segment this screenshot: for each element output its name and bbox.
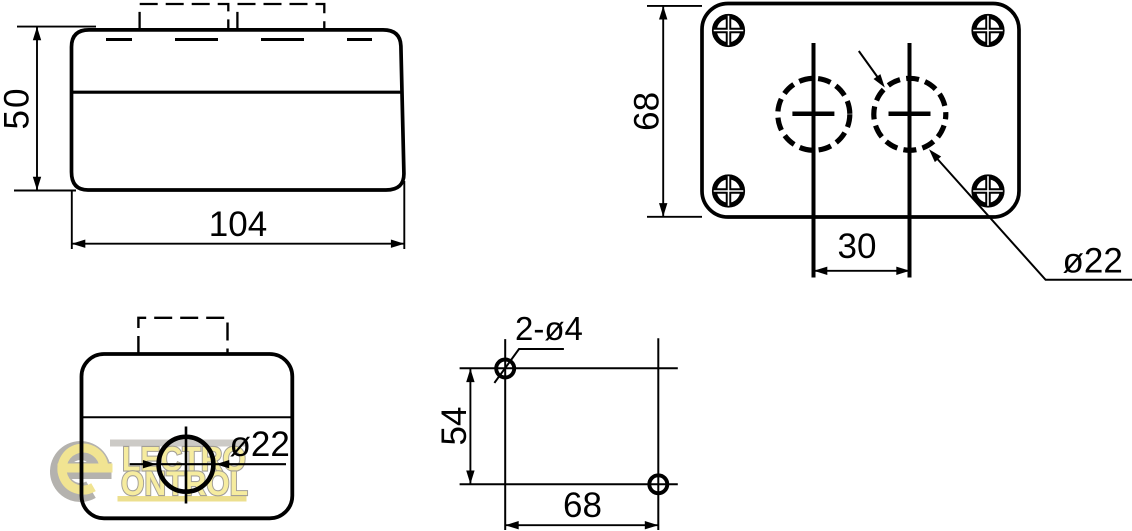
svg-text:104: 104: [209, 205, 267, 244]
watermark logo ELECTRO CONTROL: [54, 440, 249, 503]
enclosure front outline: [82, 354, 293, 518]
dim 68b dimension line: [506, 524, 658, 526]
svg-text:2-ø4: 2-ø4: [515, 310, 583, 347]
pointer arrow to right hole: [859, 51, 880, 81]
dim 30 arrow right: [896, 267, 910, 275]
svg-text:ø22: ø22: [1063, 242, 1123, 281]
dia22 front arrow left: [143, 460, 157, 468]
center line horizontal top: [460, 367, 678, 369]
dim 54 dimension line: [469, 369, 471, 484]
dim 54 arrow up: [466, 369, 474, 383]
dim 30 dimension line: [814, 270, 910, 272]
dim 50 extension line top: [17, 26, 96, 28]
svg-text:68: 68: [563, 486, 602, 525]
leader 2-dia4: [494, 349, 564, 383]
svg-text:ONTROL: ONTROL: [121, 465, 248, 503]
center line vertical hole A: [504, 339, 506, 530]
logo bottom yellow bar: [118, 496, 247, 502]
hole center line right vertical: [908, 43, 912, 278]
dim 50 arrow down: [33, 177, 41, 191]
dim 50 arrow up: [33, 27, 41, 41]
svg-text:30: 30: [838, 227, 877, 266]
button projection 1 (dashed): [140, 4, 229, 30]
hole center line left vertical: [812, 43, 816, 278]
svg-text:68: 68: [628, 92, 667, 131]
center line horizontal bottom: [460, 483, 678, 485]
dim 104 arrow right: [391, 240, 405, 248]
logo big E yellow: [58, 448, 113, 490]
dim 50 extension line bottom: [14, 190, 76, 192]
dim 68 arrow up: [659, 6, 667, 20]
dim 68b arrow right: [645, 521, 659, 529]
dim 104 extension line right: [403, 181, 405, 249]
button hole circle front: [159, 437, 214, 492]
dim 68 dimension line: [662, 7, 664, 217]
dim 104 arrow left: [72, 240, 86, 248]
leader line dia22 top view: [933, 154, 1132, 280]
hidden edge dashes inside lid: [106, 38, 372, 41]
svg-text:54: 54: [435, 407, 474, 446]
dim 68 extension line top: [647, 5, 702, 7]
dim 54 arrow down: [466, 471, 474, 485]
hole circle left (dashed): [778, 78, 850, 150]
screw top-right: [973, 16, 1003, 46]
button projection 2 (dashed): [237, 4, 324, 30]
svg-text:ø22: ø22: [230, 425, 290, 464]
svg-text:50: 50: [0, 87, 37, 130]
mounting hole A: [496, 360, 514, 378]
logo top gray bar: [110, 440, 247, 447]
dim 104 extension line left: [71, 191, 73, 250]
vertical center line front: [185, 427, 188, 504]
center line vertical hole B: [657, 338, 659, 530]
mounting hole B: [649, 475, 667, 493]
screw top-left: [714, 16, 744, 46]
hole circle right (dashed): [874, 78, 946, 150]
dim 50 dimension line: [36, 28, 38, 190]
dim 68 arrow down: [659, 203, 667, 217]
dia22 front arrow right: [216, 460, 230, 468]
dim 104 dimension line: [73, 243, 404, 245]
horizontal dimension line through circle: [130, 463, 286, 465]
dim 30 arrow left: [814, 267, 828, 275]
button projection front (dashed): [138, 318, 227, 354]
center tick left circle: [792, 112, 834, 117]
logo big E shadow: [54, 451, 112, 493]
enclosure body outline: [72, 30, 404, 190]
lid seam line: [72, 91, 403, 94]
front lid seam: [82, 416, 293, 418]
center tick right circle: [889, 112, 931, 117]
screw bottom-left: [714, 176, 744, 206]
dim 68b arrow left: [505, 521, 519, 529]
screw bottom-right: [973, 176, 1003, 206]
enclosure top view outline: [702, 4, 1019, 218]
dim 68 extension line bottom: [647, 216, 702, 218]
